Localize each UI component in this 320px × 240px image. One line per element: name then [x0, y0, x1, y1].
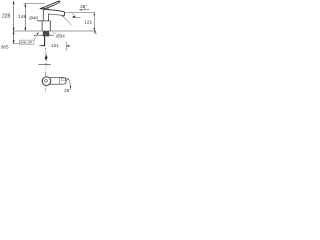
svg-text:39°: 39°: [80, 4, 87, 9]
svg-text:146: 146: [18, 14, 26, 20]
svg-text:25°: 25°: [64, 88, 71, 93]
svg-text:121: 121: [51, 43, 59, 49]
svg-text:Ø48: Ø48: [29, 15, 38, 20]
svg-text:Ø34: Ø34: [56, 34, 65, 39]
svg-text:365: 365: [1, 45, 9, 50]
svg-text:121: 121: [84, 20, 92, 26]
svg-text:max.30: max.30: [20, 41, 32, 45]
svg-text:228: 228: [2, 13, 11, 19]
